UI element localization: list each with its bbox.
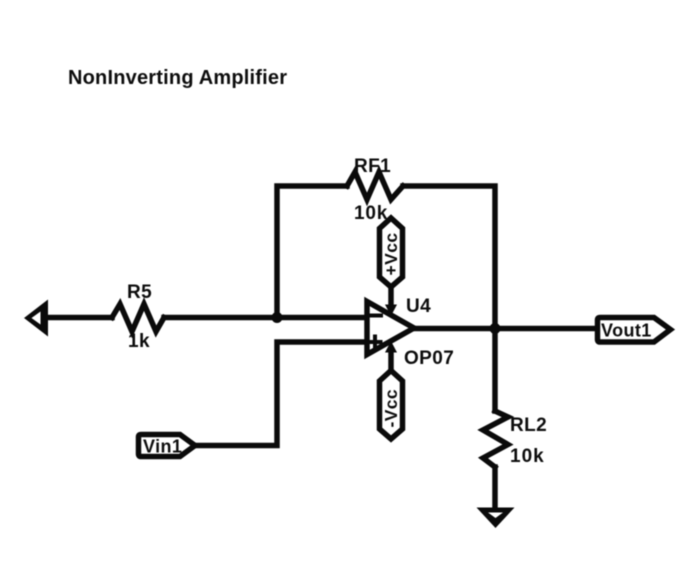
pin +Vcc arrow (385, 287, 397, 316)
svg-text:Vout1: Vout1 (601, 321, 652, 341)
wire Vin1-to-opamp (195, 342, 367, 446)
wire feedback-right (403, 186, 495, 329)
minus input mark (371, 314, 382, 318)
power flag +Vcc (380, 218, 403, 287)
svg-text:RF1: RF1 (354, 156, 391, 177)
net flag Vin1 (139, 435, 196, 457)
wire input-left (46, 315, 112, 321)
svg-text:1k: 1k (128, 331, 150, 352)
wire to RL2 (492, 329, 498, 412)
svg-text:RL2: RL2 (510, 415, 547, 436)
wire R5-to-opamp (164, 315, 367, 321)
resistor RL2 (483, 411, 508, 467)
svg-text:OP07: OP07 (404, 348, 454, 369)
svg-text:+Vcc: +Vcc (381, 233, 401, 276)
svg-text:NonInverting Amplifier: NonInverting Amplifier (68, 67, 287, 89)
node junction B (490, 323, 501, 334)
svg-text:10k: 10k (354, 203, 388, 224)
wire output (414, 326, 595, 332)
port VIN arrow (24, 300, 48, 337)
node junction A (272, 312, 283, 323)
power flag -Vcc (380, 371, 403, 440)
wire RL2-to-ground (492, 467, 498, 508)
svg-text:U4: U4 (406, 296, 431, 317)
svg-text:-Vcc: -Vcc (381, 389, 401, 428)
wire feedback-left-vertical (277, 186, 347, 318)
svg-text:10k: 10k (510, 446, 545, 467)
pin -Vcc arrow (385, 341, 397, 371)
ground (477, 508, 515, 529)
svg-text:R5: R5 (127, 282, 152, 303)
resistor RF1 (347, 172, 403, 200)
resistor R5 (112, 304, 164, 332)
net flag Vout1 (598, 318, 671, 343)
plus input mark (370, 337, 381, 348)
svg-text:Vin1: Vin1 (143, 437, 182, 457)
op-amp U1 body (367, 302, 414, 355)
